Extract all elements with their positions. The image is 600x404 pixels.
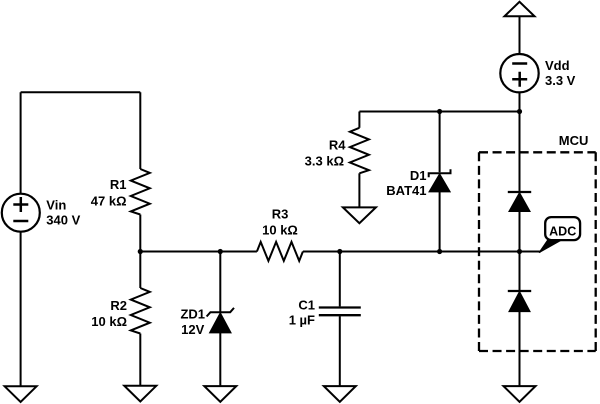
wire D1 bottom [439, 192, 441, 252]
label ZD1 12V [180, 307, 205, 337]
wire right vertical of loop down to R1 [139, 92, 141, 169]
diode MCU bottom clamp [508, 291, 531, 311]
wire D1 top [439, 112, 441, 173]
wire Vdd rail down into MCU to top clamp diode [519, 112, 521, 193]
svg-text:3.3 kΩ: 3.3 kΩ [305, 154, 344, 169]
svg-text:R1: R1 [110, 177, 127, 192]
ground under ZD1 [204, 386, 236, 402]
label R1 47 kOhm [91, 177, 127, 208]
svg-text:12V: 12V [181, 322, 204, 337]
ground under R2 [124, 386, 156, 402]
svg-text:R2: R2 [110, 298, 127, 313]
svg-text:10 kΩ: 10 kΩ [262, 223, 298, 238]
wire Vdd source to rail junction [519, 92, 521, 111]
ground under Vin [5, 386, 37, 402]
svg-text:ADC: ADC [549, 224, 576, 238]
node ZD1 tap [218, 249, 223, 254]
svg-text:BAT41: BAT41 [386, 183, 426, 198]
svg-text:1 µF: 1 µF [289, 312, 315, 327]
voltage source Vdd [500, 54, 538, 92]
svg-text:C1: C1 [298, 297, 315, 312]
svg-text:MCU: MCU [559, 133, 589, 148]
resistor R2 [131, 288, 150, 334]
label D1 BAT41 [386, 168, 426, 198]
svg-text:ZD1: ZD1 [180, 307, 205, 322]
wire R1 to junction [139, 215, 141, 252]
node ADC pin junction [517, 249, 522, 254]
wire R3 to right node [303, 251, 520, 253]
ground under R4 [343, 207, 376, 223]
svg-text:3.3 V: 3.3 V [545, 73, 576, 88]
svg-text:D1: D1 [410, 168, 427, 183]
wire rail corner down to R4 [358, 112, 360, 128]
svg-text:47 kΩ: 47 kΩ [91, 194, 127, 209]
diode D1 schottky BAT41 [429, 169, 451, 191]
label R4 3.3 kOhm [305, 137, 347, 168]
wire top-left horizontal from Vin to R1 [21, 91, 141, 93]
wire bottom clamp to ground [519, 311, 521, 386]
svg-text:R4: R4 [329, 137, 346, 152]
ground under MCU [504, 386, 536, 402]
node Vdd rail right [517, 109, 522, 114]
wire junction to R2 [139, 252, 141, 289]
svg-text:Vin: Vin [46, 197, 66, 212]
ground under C1 [324, 386, 356, 402]
net flag ADC box [545, 217, 580, 240]
wire main node row: junction to R3 [140, 251, 257, 253]
power flag Vdd arrow [505, 2, 535, 16]
label R3 10 kOhm [262, 206, 298, 237]
wire arrow to Vdd source [519, 16, 521, 54]
zener diode ZD1 [207, 308, 234, 333]
node R1/R2 junction [138, 249, 143, 254]
node D1 top tap [437, 109, 442, 114]
net flag ADC pointer [539, 240, 563, 253]
label C1 1 uF [289, 297, 315, 327]
voltage source Vin [2, 194, 40, 232]
resistor R4 [350, 128, 369, 174]
wire ZD1 tap down [219, 252, 221, 313]
label R2 10 kOhm [91, 298, 127, 329]
node C1 tap [337, 249, 342, 254]
resistor R3 [257, 242, 303, 261]
wire R4 to ground [358, 173, 360, 207]
resistor R1 [131, 169, 150, 215]
diode MCU top clamp [508, 192, 531, 211]
label Vdd 3.3 V [545, 58, 576, 88]
wire Vdd rail horizontal [359, 111, 519, 113]
svg-text:Vdd: Vdd [545, 58, 570, 73]
wire left vertical Vin top [20, 92, 22, 193]
wire ZD1 to ground [219, 333, 221, 387]
node D1 bottom tap [437, 249, 442, 254]
svg-text:R3: R3 [272, 206, 289, 221]
wire Vin bottom to ground [20, 232, 22, 387]
wire C1 tap down [339, 252, 341, 307]
wire top clamp to ADC node [519, 211, 521, 251]
capacitor C1 [319, 308, 361, 316]
wire ADC node stub [520, 251, 542, 253]
svg-text:10 kΩ: 10 kΩ [91, 314, 127, 329]
wire ADC node to bottom clamp [519, 252, 521, 292]
MCU dashed box [479, 152, 596, 351]
wire C1 to ground [339, 316, 341, 386]
svg-text:340 V: 340 V [46, 213, 80, 228]
wire R2 to ground [139, 334, 141, 386]
label Vin 340 V [46, 197, 80, 227]
